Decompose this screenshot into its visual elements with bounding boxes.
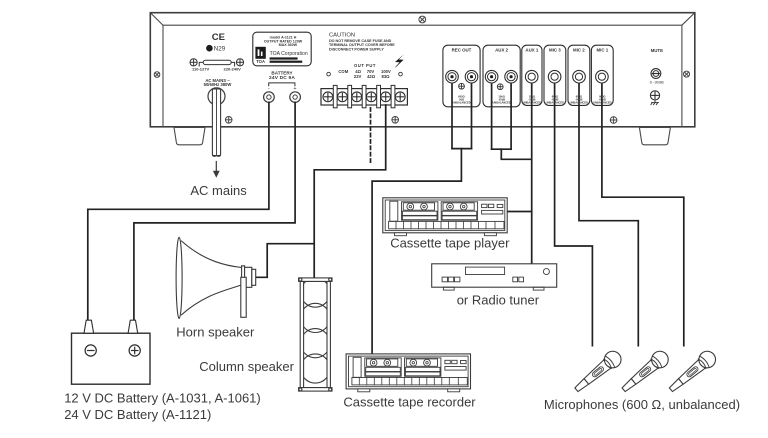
microphone 3 [666,348,719,396]
battery post right [128,320,138,333]
terminal screw 1 (COM) [323,92,333,102]
battery bracket [269,83,295,86]
REC OUT jack box [443,45,480,107]
cassette tape recorder [346,354,470,389]
cassette tape player [383,198,507,233]
wire REC OUT pair merge [452,148,472,150]
N29 approval mark [206,45,226,53]
microphone 2 [618,348,671,396]
terminal screw 5 [381,92,391,102]
terminal labels row 1 [338,69,391,74]
terminal screw 6 [395,92,405,102]
terminal barrier 4 [377,85,381,107]
MIC1 tiny text [593,95,611,105]
svg-text:N29: N29 [214,46,226,53]
MIC 1 jack box [591,45,613,105]
ground screw [650,91,659,100]
svg-text:MIC 2: MIC 2 [573,48,585,53]
svg-text:110-127V: 110-127V [192,67,209,72]
column speaker [299,278,332,391]
wire AUX2 right jack down [510,77,512,149]
fuse holder [199,60,234,66]
screw inner bottom-right [610,117,617,124]
player feet [395,233,407,236]
svg-text:12 V DC Battery (A-1031, A-106: 12 V DC Battery (A-1031, A-1061) [64,391,261,406]
battery post left [84,320,94,333]
svg-text:100V: 100V [381,69,391,74]
svg-text:24V DC 9A: 24V DC 9A [269,75,295,81]
svg-text:CE: CE [212,32,225,43]
battery terminal plus [290,92,301,103]
svg-text:AUX 1: AUX 1 [525,48,538,53]
svg-text:AUX 2: AUX 2 [495,48,508,53]
MIC2 tiny text [570,95,588,105]
svg-text:UNBALANCED: UNBALANCED [452,101,470,105]
battery terminal minus [264,92,275,103]
svg-text:MIC 1: MIC 1 [596,48,608,53]
AUX1 jack [525,70,538,83]
svg-text:REC OUT: REC OUT [452,48,472,53]
screw inner bottom-middle [392,117,399,124]
amplifier front bevel edges [151,13,695,127]
svg-text:AC mains: AC mains [190,183,247,198]
REC OUT jack R [465,70,478,83]
svg-text:220-240V: 220-240V [224,67,242,72]
cable gland [208,88,225,105]
wire branch to horn speaker [256,244,314,278]
svg-text:50/60Hz 380W: 50/60Hz 380W [204,82,232,87]
svg-text:COM: COM [338,69,348,74]
svg-text:Horn speaker: Horn speaker [176,325,255,340]
horn speaker [176,237,256,318]
battery plus mark [129,345,140,356]
svg-text:MUTE: MUTE [651,48,664,53]
svg-text:UNBALANCED: UNBALANCED [570,101,588,105]
svg-text:UNBALANCED: UNBALANCED [492,101,510,105]
panel hole right [399,72,403,76]
AUX2 screw [497,84,503,90]
svg-text:TERMINAL OUTPUT COVER BEFORE: TERMINAL OUTPUT COVER BEFORE [329,43,395,47]
svg-text:Cassette tape recorder: Cassette tape recorder [343,395,476,410]
AUX 1 jack box [522,45,542,105]
MIC3 tiny text [546,95,564,105]
panel hole left [327,72,331,76]
svg-text:Cassette tape player: Cassette tape player [390,236,510,251]
svg-text:24 V DC Battery (A-1121): 24 V DC Battery (A-1121) [64,407,211,422]
terminal screw 3 [352,92,362,102]
svg-text:UNBALANCED: UNBALANCED [593,101,611,105]
svg-text:UNBALANCED: UNBALANCED [546,101,564,105]
wire AUX2 cable join AUX1 [501,149,531,159]
svg-text:0 -30dB: 0 -30dB [650,80,664,85]
AUX 2 jack box [483,45,520,107]
svg-text:4Ω: 4Ω [355,69,361,74]
wire AUX2 left jack down [491,77,493,149]
svg-text:CAUTION: CAUTION [329,32,355,38]
wire AUX1 to tuner [531,77,533,264]
wire REC OUT cable to recorder [372,149,461,354]
recorder key dividers [359,378,458,385]
AUX2 tiny text [492,95,510,105]
screw top bevel [419,16,426,23]
MIC3 jack [548,70,561,83]
svg-text:42Ω: 42Ω [367,74,376,79]
speaker terminal block [321,89,407,105]
REC OUT screw [459,83,465,89]
mute trimmer pot [651,69,661,79]
terminal screw 4 [366,92,376,102]
MIC 2 jack box [568,45,590,105]
terminal barrier 3 [362,85,366,107]
svg-text:or Radio tuner: or Radio tuner [457,292,540,307]
left foot [174,127,205,144]
svg-text:OUT PUT: OUT PUT [354,63,376,68]
screw inner bottom-left [225,117,232,124]
microphone 1 [571,348,624,396]
svg-text:UNBALANCED: UNBALANCED [523,101,541,105]
AUX1 tiny text [523,95,541,105]
AUX2 jack L [485,70,498,83]
AUX2 jack R [505,70,518,83]
wire battery plus [134,102,295,320]
svg-text:22V: 22V [354,74,362,79]
screw right bevel [684,71,690,77]
svg-text:Microphones (600 Ω, unbalanced: Microphones (600 Ω, unbalanced) [544,397,740,412]
wire MIC3 to microphone [555,77,593,346]
voltage selector screw right [236,59,243,66]
MIC2 jack [573,70,586,83]
recorder feet [358,389,370,392]
right foot [639,127,670,144]
REC OUT jack L [446,70,459,83]
svg-text:DISCONNECT POWER SUPPLY: DISCONNECT POWER SUPPLY [329,48,384,52]
svg-text:DO NOT REMOVE CASE FUSE AND: DO NOT REMOVE CASE FUSE AND [329,39,392,43]
wire REC OUT left jack down [451,77,453,149]
wire battery minus [88,102,269,320]
lightning bolt [395,54,404,67]
terminal labels row 2 [354,74,390,79]
voltage selector screw left [190,59,197,66]
MIC1 jack [596,70,609,83]
MIC 3 jack box [544,45,566,105]
ground symbol [651,100,659,105]
terminal barrier 5 [391,85,395,107]
wire MIC2 to microphone [579,77,638,346]
svg-text:TOA Corporation: TOA Corporation [270,51,308,57]
terminal screw 2 [338,92,348,102]
screw left bevel [154,72,160,78]
wire speaker output to column speaker [314,105,386,278]
svg-text:70V: 70V [367,69,375,74]
battery body [72,333,151,384]
svg-text:83Ω: 83Ω [381,74,390,79]
amplifier outer case [150,13,695,127]
wire MIC1 to microphone [602,77,684,346]
terminal barrier 2 [348,85,352,107]
battery minus mark [85,345,96,356]
wire REC OUT right jack down [471,77,473,149]
svg-text:MAX 360W: MAX 360W [279,43,298,47]
svg-text:TOA: TOA [256,59,265,64]
AC mains arrow [213,162,220,178]
wire tap to cassette player [507,211,532,213]
radio tuner [432,264,557,290]
TOA nameplate label [253,32,311,66]
dashed alternate wire [370,108,372,165]
wire AUX2 pair merge [492,148,512,150]
svg-text:Column speaker: Column speaker [199,359,294,374]
svg-text:BATTERY: BATTERY [271,70,292,75]
svg-text:MIC 3: MIC 3 [549,48,561,53]
terminal barrier 1 [333,85,337,107]
REC OUT tiny text [452,95,470,105]
player key dividers [396,221,495,228]
AC power cord [212,89,220,156]
